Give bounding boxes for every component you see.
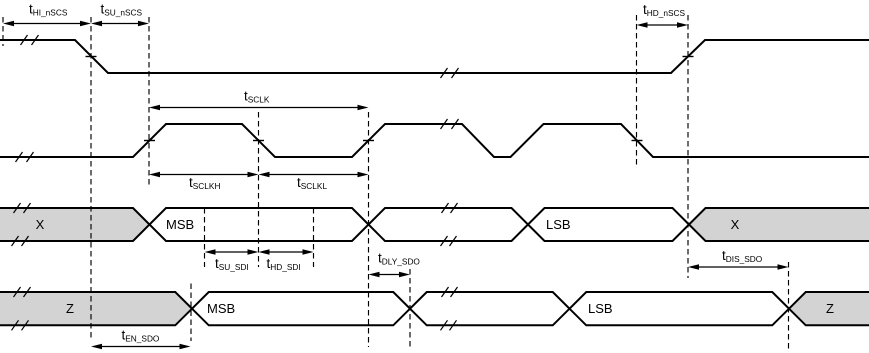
svg-text:X: X: [36, 217, 45, 232]
mid-level tick SCLK last falling edge: [632, 140, 643, 142]
dashed line at left edge x=3: [2, 17, 4, 46]
break marks nSCS high: [21, 35, 39, 45]
SDO bus MSB segment: [192, 292, 410, 325]
break marks SCLK high middle: [441, 119, 459, 129]
break marks SDO left: [12, 287, 31, 330]
arrow tSU_nSCS: [91, 21, 149, 27]
arrow tHD_nSCS: [637, 22, 689, 28]
dashed line x=191 SDO MSB start: [190, 284, 192, 342]
mid-level tick SCLK rising edge 2: [363, 140, 374, 142]
arrow tSU_SDI: [205, 249, 259, 255]
SDI bus MSB segment: [150, 208, 369, 241]
SDO bus gray Z region left: [0, 292, 192, 325]
svg-text:tHD_SDI: tHD_SDI: [267, 256, 301, 272]
SDI bus LSB segment: [528, 208, 689, 241]
dashed line x=91 nSCS fall: [90, 17, 92, 341]
svg-text:LSB: LSB: [588, 301, 613, 316]
arrow tSCLK: [149, 105, 369, 111]
dashed line x=788.5 SDO Z transition: [788, 262, 790, 351]
svg-text:tSU_SDI: tSU_SDI: [215, 256, 249, 272]
arrow tEN_SDO: [91, 344, 191, 350]
arrow tHD_SDI: [259, 249, 314, 255]
arrow tSCLKH: [149, 172, 259, 178]
dashed line x=204.5 SDI setup start: [204, 208, 206, 267]
svg-text:tEN_SDO: tEN_SDO: [122, 328, 160, 344]
break marks SDI left: [12, 203, 31, 246]
arrow tSCLKL: [259, 172, 369, 178]
mid-level tick SCLK rising edge 1: [144, 140, 155, 142]
dashed line x=368.5 SCLK rise 2: [368, 112, 370, 347]
dashed line x=410 SDO MSB transition: [409, 269, 411, 349]
svg-text:tSU_nSCS: tSU_nSCS: [101, 2, 143, 18]
mid-level tick SCLK falling edge 1: [253, 140, 264, 142]
dashed line x=313.5 SDI hold end: [313, 208, 315, 267]
svg-text:MSB: MSB: [166, 217, 194, 232]
SDO bus LSB segment: [570, 292, 790, 325]
svg-text:MSB: MSB: [207, 301, 235, 316]
break marks SDO middle: [441, 287, 458, 330]
svg-text:Z: Z: [66, 301, 74, 316]
mid-level tick nSCS falling edge: [86, 56, 97, 58]
svg-text:LSB: LSB: [546, 217, 571, 232]
signal SCLK waveform: [0, 124, 869, 157]
arrow tDLY_SDO: [369, 272, 411, 278]
svg-text:X: X: [731, 217, 740, 232]
break marks SCLK low left: [16, 152, 34, 162]
svg-text:Z: Z: [826, 301, 834, 316]
svg-text:tHD_nSCS: tHD_nSCS: [643, 2, 686, 18]
svg-text:tDLY_SDO: tDLY_SDO: [378, 251, 420, 267]
svg-text:tSCLKL: tSCLKL: [297, 175, 327, 191]
signal nSCS waveform: [0, 40, 869, 73]
break marks SDI middle: [441, 203, 458, 246]
arrow tHI_nSCS: [3, 21, 91, 27]
break marks nSCS low: [441, 68, 459, 78]
svg-text:tSCLK: tSCLK: [244, 89, 270, 105]
SDI bus middle segment: [369, 208, 529, 241]
dashed line x=258.5 SCLK fall 1: [258, 112, 260, 267]
SDO bus middle segment: [410, 292, 570, 325]
SDO bus gray Z region right: [789, 292, 869, 325]
dashed line x=636.5 SCLK last fall: [636, 15, 638, 166]
svg-text:tDIS_SDO: tDIS_SDO: [722, 248, 763, 264]
SDI bus gray X region right: [689, 208, 869, 241]
dashed line x=688 nSCS rise: [687, 15, 689, 278]
dashed line x=149 SCLK rise 1: [148, 17, 150, 188]
SDI bus gray X region left: [0, 208, 150, 241]
svg-text:tSCLKH: tSCLKH: [189, 175, 220, 191]
arrow tDIS_SDO: [688, 264, 789, 270]
mid-level tick nSCS rising edge: [683, 56, 694, 58]
svg-text:tHI_nSCS: tHI_nSCS: [29, 2, 68, 18]
